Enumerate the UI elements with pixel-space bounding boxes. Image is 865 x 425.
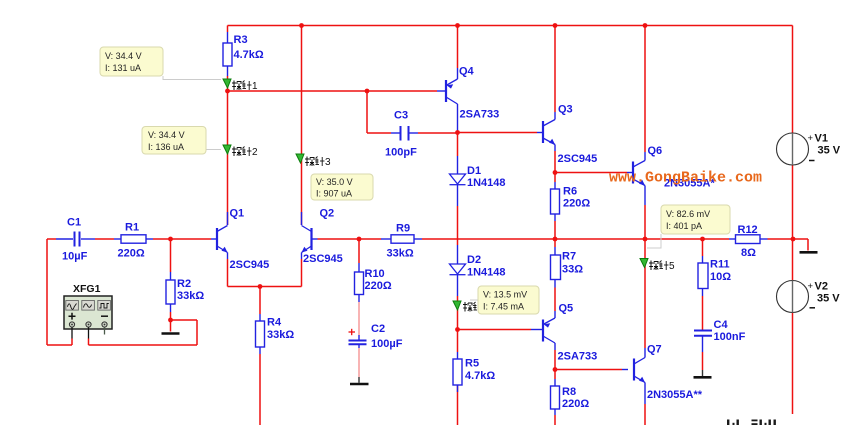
svg-text:2SA733: 2SA733 — [460, 109, 500, 121]
svg-text:V: 13.5 mV: V: 13.5 mV — [483, 290, 527, 300]
svg-text:220Ω: 220Ω — [563, 198, 590, 210]
svg-text:35 V: 35 V — [818, 145, 841, 157]
svg-text:Q2: Q2 — [320, 208, 335, 220]
svg-text:Q6: Q6 — [648, 145, 663, 157]
svg-text:I: 131 uA: I: 131 uA — [105, 63, 141, 73]
svg-text:100nF: 100nF — [714, 331, 746, 343]
svg-text:10Ω: 10Ω — [710, 271, 731, 283]
svg-text:D2: D2 — [467, 254, 481, 266]
svg-text:220Ω: 220Ω — [562, 398, 589, 410]
svg-text:Q4: Q4 — [459, 66, 475, 78]
svg-text:V: 82.6 mV: V: 82.6 mV — [666, 209, 710, 219]
svg-text:+: + — [808, 281, 814, 292]
svg-text:R3: R3 — [234, 34, 248, 46]
svg-text:5: 5 — [669, 261, 675, 272]
svg-text:R7: R7 — [562, 251, 576, 263]
svg-text:R5: R5 — [465, 358, 479, 370]
svg-text:R11: R11 — [710, 259, 730, 271]
svg-text:D1: D1 — [467, 165, 481, 177]
svg-text:10µF: 10µF — [62, 251, 88, 263]
svg-text:R6: R6 — [563, 186, 577, 198]
svg-text:1: 1 — [252, 81, 258, 92]
svg-text:C1: C1 — [67, 217, 81, 229]
svg-text:I: 401 pA: I: 401 pA — [666, 221, 702, 231]
svg-text:V: 35.0 V: V: 35.0 V — [316, 177, 353, 187]
svg-text:35 V: 35 V — [817, 293, 840, 305]
svg-text:Q3: Q3 — [558, 104, 573, 116]
svg-text:R10: R10 — [365, 268, 385, 280]
svg-text:V2: V2 — [815, 281, 828, 293]
svg-text:C4: C4 — [714, 319, 729, 331]
svg-text:2SC945: 2SC945 — [303, 253, 343, 265]
svg-text:2SC945: 2SC945 — [558, 153, 598, 165]
svg-text:4.7kΩ: 4.7kΩ — [465, 370, 495, 382]
svg-text:I: 136 uA: I: 136 uA — [148, 142, 184, 152]
svg-text:R4: R4 — [267, 317, 282, 329]
svg-text:R8: R8 — [562, 386, 576, 398]
svg-text:Q5: Q5 — [559, 303, 574, 315]
svg-text:2SC945: 2SC945 — [230, 259, 270, 271]
svg-text:33kΩ: 33kΩ — [267, 329, 294, 341]
svg-text:33Ω: 33Ω — [562, 264, 583, 276]
svg-text:220Ω: 220Ω — [365, 280, 392, 292]
svg-text:I: 907 uA: I: 907 uA — [316, 189, 352, 199]
svg-text:R12: R12 — [738, 224, 758, 236]
svg-text:1N4148: 1N4148 — [467, 267, 506, 279]
svg-text:100pF: 100pF — [385, 147, 417, 159]
svg-text:V1: V1 — [815, 133, 828, 145]
svg-text:4.7kΩ: 4.7kΩ — [234, 49, 264, 61]
svg-text:33kΩ: 33kΩ — [177, 290, 204, 302]
svg-text:V: 34.4 V: V: 34.4 V — [105, 51, 142, 61]
svg-text:8Ω: 8Ω — [741, 247, 756, 259]
svg-text:2SA733: 2SA733 — [558, 351, 598, 363]
svg-text:+: + — [808, 133, 814, 144]
svg-text:R2: R2 — [177, 278, 191, 290]
svg-text:100µF: 100µF — [371, 338, 403, 350]
svg-text:220Ω: 220Ω — [118, 248, 145, 260]
svg-text:R1: R1 — [125, 222, 139, 234]
svg-text:C2: C2 — [371, 323, 385, 335]
svg-text:33kΩ: 33kΩ — [387, 248, 414, 260]
svg-text:1N4148: 1N4148 — [467, 177, 506, 189]
svg-text:C3: C3 — [394, 110, 408, 122]
svg-text:R9: R9 — [396, 223, 410, 235]
svg-text:I: 7.45 mA: I: 7.45 mA — [483, 302, 524, 312]
svg-text:Q1: Q1 — [230, 208, 245, 220]
svg-text:Q7: Q7 — [647, 344, 662, 356]
svg-text:XFG1: XFG1 — [73, 283, 101, 295]
svg-text:V: 34.4 V: V: 34.4 V — [148, 130, 185, 140]
svg-text:2: 2 — [252, 147, 258, 158]
svg-text:2N3055A**: 2N3055A** — [647, 389, 703, 401]
svg-text:www.GongBaike.com: www.GongBaike.com — [609, 170, 762, 187]
svg-text:3: 3 — [325, 157, 331, 168]
